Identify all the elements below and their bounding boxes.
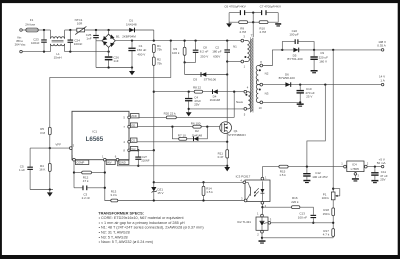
resistor R20 (166, 116, 176, 119)
wire top rail: fuse to choke (38, 29, 50, 31)
node C23 bottom (43, 50, 45, 52)
resistor R9 (229, 13, 239, 23)
svg-text:STP7NB60FI: STP7NB60FI (228, 133, 246, 137)
capacitor C8 (194, 39, 196, 41)
winding N3 (260, 101, 263, 104)
opto pin 2 (261, 201, 264, 204)
phase dot N1 (244, 56, 246, 58)
diode D3 (185, 74, 228, 76)
svg-text:B1: B1 (116, 34, 120, 38)
pin 7 GD (128, 125, 131, 128)
node C24 top (69, 29, 71, 31)
op-amp U1 IC1 L6565 box (72, 111, 129, 159)
ground arrow below C1 column (131, 68, 133, 72)
diode D4 (213, 89, 218, 94)
wire 108V line (314, 49, 381, 51)
wire bridge top vertex up (108, 30, 110, 34)
wire COMP column (73, 161, 75, 188)
svg-text:R7 10: R7 10 (178, 134, 186, 138)
svg-text:N1: N1 (233, 45, 237, 49)
capacitor C23 (43, 30, 45, 39)
transistor Q1 (220, 122, 232, 134)
wire snubber riser to D3 (184, 62, 186, 74)
IC4 pin 3 ground (354, 172, 356, 179)
capacitor C11 (374, 167, 376, 173)
choke L1 (50, 30, 52, 39)
node feedback tap (332, 49, 334, 51)
wire top rail: NTC to bridge and D1 (85, 29, 154, 31)
svg-text:INV: INV (107, 161, 112, 165)
svg-text:100nF: 100nF (74, 42, 83, 46)
capacitor C5 (29, 148, 31, 167)
svg-text:1 A: 1 A (380, 78, 384, 82)
phase dot N2 (259, 69, 261, 71)
svg-text:180 pF: 180 pF (212, 49, 222, 53)
resistor R18 (332, 200, 334, 208)
svg-text:TRANSFORMER SPECS:: TRANSFORMER SPECS: (98, 210, 144, 215)
node VFF drop on rail (170, 39, 172, 41)
node CS / source (226, 141, 228, 143)
wire R16 line (262, 206, 291, 208)
phase dot Naux (245, 94, 247, 96)
winding N1 (241, 39, 244, 42)
node GD left (171, 126, 173, 128)
svg-text:3 M: 3 M (40, 131, 46, 135)
node mid C6/C7 (252, 11, 254, 13)
resistor R3 (184, 41, 186, 48)
svg-text:T1: T1 (251, 34, 255, 38)
node C23 top (43, 29, 45, 31)
resistor R11 (226, 150, 229, 158)
svg-text:D2: D2 (195, 129, 199, 133)
winding Naux (244, 90, 247, 93)
capacitor C7 (267, 12, 279, 14)
svg-text:0.47: 0.47 (218, 155, 224, 159)
svg-text:160 V: 160 V (319, 60, 327, 64)
svg-text:47 k: 47 k (83, 179, 89, 183)
svg-text:R8 22: R8 22 (193, 86, 201, 90)
opto pin 3 (244, 199, 247, 202)
svg-text:1.5 k: 1.5 k (206, 190, 213, 194)
svg-text:2A fuse: 2A fuse (25, 22, 35, 26)
pin 1 INV (103, 158, 106, 161)
wire Vcc line (129, 149, 154, 151)
wire Vcc column down (153, 150, 155, 187)
capacitor C24 (69, 30, 71, 40)
HV rail (115, 40, 242, 42)
node R11 bottom / gnd line (226, 165, 228, 167)
ground arrow below R11 (224, 167, 230, 171)
node 14V jog (324, 83, 326, 85)
wire bridge left vertex to C25 column (96, 40, 102, 42)
node C9 top (313, 49, 315, 51)
resistor R13 (111, 199, 118, 202)
svg-text:1N4148: 1N4148 (192, 134, 203, 138)
resistor R10 (248, 21, 260, 23)
optocoupler IC3 PC817 (245, 180, 270, 202)
svg-text:N2: N2 (265, 72, 269, 76)
bridge rectifier B1 (102, 34, 115, 47)
svg-text:220 k: 220 k (291, 200, 299, 204)
svg-text:2.2 nF: 2.2 nF (82, 196, 91, 200)
opto internals: light arrows (254, 188, 258, 196)
svg-text:Naux: Naux (236, 100, 244, 104)
node C12 (306, 165, 308, 167)
node C4 top (188, 91, 190, 93)
svg-text:10: 10 (259, 106, 262, 110)
IC4 L7805 (344, 165, 347, 168)
svg-text:1N4148: 1N4148 (126, 23, 137, 27)
wire VFF line (30, 147, 69, 149)
wire bottom feedback line (262, 237, 333, 239)
output terminal 14V (381, 83, 384, 86)
svg-text:630V: 630V (213, 55, 220, 59)
svg-text:100nF: 100nF (31, 41, 40, 45)
wire IC4 input line (262, 166, 343, 168)
ground bar below TL431 (259, 240, 266, 242)
node rail/D1/R1 junction (153, 39, 155, 41)
wire D1 line corner down to rail (153, 30, 155, 41)
node bridge bottom / AC rail junction (107, 50, 109, 52)
wire R16 to C13 (300, 207, 313, 215)
shunt regulator IC2 TL431 (256, 217, 268, 230)
capacitor C13 (311, 215, 317, 216)
wire startup column R2 down to Vcc area (153, 65, 155, 150)
phase dot N3 (259, 89, 261, 91)
svg-text:COMP: COMP (76, 161, 84, 165)
svg-text:8.2 nF: 8.2 nF (200, 49, 209, 53)
svg-text:VFF: VFF (55, 143, 61, 147)
resistor R17 (332, 229, 335, 237)
ground bar right of C7 (275, 23, 281, 25)
ground bar below C11 (371, 180, 378, 182)
svg-text:15mH: 15mH (54, 55, 62, 59)
wire GND line (118, 161, 228, 166)
wire pin1 link (227, 61, 241, 63)
ground arrow left of C6 (228, 22, 230, 23)
wire INV column (105, 161, 111, 201)
pin 8 Vcc (128, 149, 131, 152)
resistor R15 (279, 165, 288, 168)
svg-text:• N1: 48 T (24T+24T series con: • N1: 48 T (24T+24T series connected), 2… (99, 226, 205, 230)
svg-text:1nF: 1nF (113, 59, 118, 63)
svg-text:100 k: 100 k (172, 51, 180, 55)
node C10 top (299, 83, 301, 85)
svg-text:N3: N3 (265, 92, 269, 96)
resistor R1 (152, 44, 155, 52)
svg-text:BYW98-100: BYW98-100 (279, 76, 296, 80)
input terminal top (20, 29, 23, 32)
svg-text:IC2 TL431: IC2 TL431 (237, 220, 251, 224)
pin 6 GND (116, 158, 119, 161)
capacitor C2 (226, 39, 228, 41)
svg-text:2KBP04M: 2KBP04M (122, 34, 136, 38)
wire R8 line (154, 91, 194, 93)
zener DZ1 (151, 187, 156, 191)
svg-text:75k: 75k (157, 48, 162, 52)
wire R8 to D4 (203, 91, 235, 93)
svg-text:• N2: 31 T, AWG28: • N2: 31 T, AWG28 (99, 231, 130, 235)
svg-text:15 V: 15 V (157, 191, 163, 195)
capacitor C25 (95, 30, 97, 35)
core (250, 37, 253, 112)
svg-text:L6565: L6565 (86, 136, 104, 143)
svg-text:250 V: 250 V (200, 55, 208, 59)
svg-text:150 k: 150 k (323, 212, 331, 216)
wire R7/D2 branch (172, 127, 178, 139)
svg-text:GD: GD (131, 123, 135, 127)
capacitor C27 (137, 149, 139, 151)
wire Naux pin5 line (189, 108, 244, 110)
svg-text:100 k: 100 k (322, 196, 330, 200)
ground bar below C12 (303, 180, 310, 182)
svg-text:264 Vac: 264 Vac (15, 42, 26, 46)
wire IC4 output (367, 166, 381, 168)
diode D1 (129, 28, 134, 33)
resistor R4 (49, 148, 51, 163)
ground arrow below C4 (186, 112, 192, 116)
wire bridge bottom column through C26 (108, 47, 110, 56)
svg-text:1N4148: 1N4148 (210, 98, 221, 102)
diode D5 (282, 49, 314, 51)
svg-text:ZCD: ZCD (131, 114, 137, 118)
output terminal +5V (381, 165, 384, 168)
input terminal bottom (20, 50, 23, 53)
winding N2 (260, 64, 263, 67)
svg-text:100 pF: 100 pF (289, 33, 299, 37)
wire TL431 anode to gnd (261, 233, 263, 240)
node drain/D3 (226, 73, 228, 75)
wire pin10 to C10 ground (263, 101, 301, 103)
svg-text:STTA106: STTA106 (204, 77, 217, 81)
capacitor C9 (313, 50, 315, 56)
node drain/pin1 (226, 60, 228, 62)
svg-text:D3: D3 (193, 77, 197, 81)
wire 14V line from pin 9 (263, 84, 382, 86)
svg-text:4.7M: 4.7M (239, 30, 246, 34)
resistor R6 (193, 125, 201, 128)
svg-text:C6 4700pF/4KV: C6 4700pF/4KV (224, 4, 245, 8)
svg-text:1 uF: 1 uF (19, 168, 25, 172)
pin 5 ZCD (128, 116, 131, 119)
pin 3 VFF (69, 147, 72, 150)
resistor R7 (179, 137, 187, 140)
node C22 left (281, 49, 283, 51)
fuse F1 (26, 28, 39, 32)
svg-text:R20 22 k: R20 22 k (164, 111, 177, 115)
svg-text:25 V: 25 V (306, 95, 312, 99)
wire 108V feedback vertical (332, 50, 334, 192)
svg-text:C27: C27 (142, 155, 147, 159)
svg-text:400 V: 400 V (137, 52, 145, 56)
capacitor C10 (299, 85, 301, 90)
node GD right (206, 126, 208, 128)
wire drain column (226, 75, 228, 122)
node Naux return / C4 gnd (188, 108, 190, 110)
svg-text:220NF: 220NF (141, 158, 149, 162)
diode D2 (194, 137, 199, 142)
svg-text:L7805: L7805 (351, 167, 360, 171)
node C24 bottom (69, 50, 71, 52)
node VFF (49, 147, 51, 149)
wire mid column to core (252, 13, 254, 23)
opto internals: transistor (249, 187, 251, 196)
svg-text:3.3 k: 3.3 k (110, 193, 117, 197)
wire bottom rail: choke to bridge (65, 51, 109, 53)
node bridge top (107, 29, 109, 31)
capacitor C3 (74, 187, 82, 189)
wire ZCD line (129, 116, 234, 118)
capacitor C26 (105, 56, 113, 58)
svg-text:25V: 25V (194, 102, 199, 106)
svg-text:R6 100: R6 100 (191, 121, 201, 125)
capacitor C4 (188, 92, 190, 98)
pin 2 COMP (73, 158, 76, 161)
pin 4 CS (128, 140, 131, 143)
svg-text:25V: 25V (380, 178, 385, 182)
wire D4 to pin4 (234, 91, 244, 93)
svg-text:BYT01-400: BYT01-400 (287, 57, 303, 61)
wire top rail: terminal to fuse (22, 29, 26, 31)
resistor R2 (152, 57, 155, 65)
snubber bottom link R3/C8 (185, 61, 196, 63)
node REF junction (332, 222, 334, 224)
thermistor NTC1 (77, 28, 85, 32)
svg-text:75k: 75k (157, 61, 162, 65)
svg-text:CS: CS (131, 139, 135, 143)
resistor R16 (292, 206, 300, 209)
svg-text:• ≈ 1 mm air gap for a primary: • ≈ 1 mm air gap for a primary inductanc… (99, 221, 185, 225)
node R8 line / startup column (153, 91, 155, 93)
capacitor C6 (229, 12, 240, 14)
output terminal 108V (381, 49, 384, 52)
wire bottom rail: terminal to choke (22, 51, 50, 53)
capacitor C22 (282, 42, 294, 50)
svg-text:50 mA: 50 mA (377, 161, 386, 165)
TL431 symbol (261, 217, 263, 221)
potentiometer P1 (332, 188, 334, 190)
wire VFF gnd link (30, 189, 53, 191)
wire opto collector line (154, 181, 244, 183)
wire CS line (129, 141, 227, 143)
ground bar below C9 (311, 70, 318, 72)
primary ground line under bridge (96, 67, 132, 69)
wire top rail: choke to NTC (65, 29, 77, 31)
node C1 top (131, 39, 133, 41)
opto pin 4 (243, 181, 246, 184)
wire REF line (271, 222, 334, 224)
svg-text:IC3 PC817: IC3 PC817 (236, 175, 251, 179)
wire ZCD riser (233, 92, 235, 118)
resistor R8 (194, 90, 202, 93)
ground bar below C10 (297, 103, 304, 105)
svg-text:4.7 k: 4.7 k (323, 233, 330, 237)
border frame (0, 0, 400, 3)
svg-text:IC1: IC1 (92, 130, 97, 134)
wire opto pin2 column (261, 204, 263, 214)
svg-text:• N3: 5 T, AWG28: • N3: 5 T, AWG28 (99, 235, 128, 239)
ground arrow below R4 (49, 190, 51, 193)
svg-text:C7 4700pF/4KV: C7 4700pF/4KV (260, 4, 281, 8)
node C25 top (95, 29, 97, 31)
wire C25 column down to primary gnd line (95, 41, 97, 68)
node opto collector line (153, 181, 155, 183)
capacitor C1 (131, 41, 133, 48)
diode D6 (285, 82, 290, 87)
capacitor C12 (306, 167, 308, 173)
opto internals: LED (260, 189, 264, 193)
node ZCD tap (233, 91, 235, 93)
resistor R5 (48, 127, 51, 134)
svg-text:1.5 k: 1.5 k (279, 173, 286, 177)
wire GD line (129, 126, 222, 128)
svg-text:16 K: 16 K (39, 168, 45, 172)
svg-text:• Naux: 5 T, AWG32 (⌀ 0.24 mm): • Naux: 5 T, AWG32 (⌀ 0.24 mm) (99, 240, 154, 244)
wire jog 14V to IC4 input line (307, 85, 325, 167)
resistor R14 (202, 181, 204, 183)
svg-text:0.35 A: 0.35 A (377, 44, 386, 48)
wire R1-R2 (153, 53, 155, 57)
svg-text:10R: 10R (77, 21, 83, 25)
opto pin 1 (261, 177, 264, 180)
wire VFF feed: rail down, across, to R5 column (50, 41, 171, 128)
svg-text:GND: GND (120, 161, 126, 165)
svg-text:100 nF: 100 nF (298, 215, 308, 219)
wire INV feedback line to opto (118, 200, 244, 202)
svg-text:• CORE: ETD29x16x10, N67 mate: • CORE: ETD29x16x10, N67 material or equ… (99, 216, 185, 220)
wire pin8 riser (263, 50, 283, 66)
svg-text:100 uF 25V: 100 uF 25V (312, 175, 328, 179)
resistor R12 (74, 172, 82, 174)
svg-text:4.7M: 4.7M (259, 30, 266, 34)
svg-text:1nF: 1nF (86, 36, 91, 40)
